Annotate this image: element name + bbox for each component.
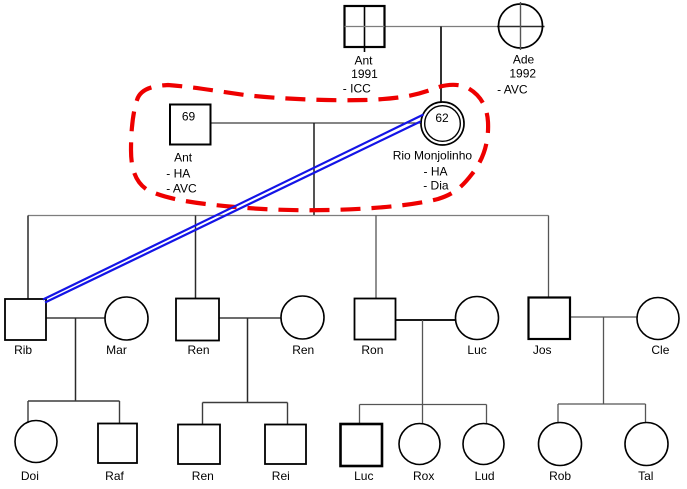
wire: marriage Ron-Luc bbox=[396, 319, 456, 321]
wire: descent Jos-Cle to children bbox=[603, 317, 605, 404]
person Mar (circle) bbox=[105, 297, 148, 340]
wire: sibship line Jos-Cle children bbox=[558, 403, 646, 405]
svg-text:Lud: Lud bbox=[475, 469, 495, 483]
annotation: blue double relationship line 62 to Rib bbox=[43, 115, 424, 303]
label Ade 1992 - AVC bbox=[497, 53, 536, 97]
svg-text:1991: 1991 bbox=[351, 67, 378, 81]
wire: drop to Ren son bbox=[202, 403, 204, 425]
svg-text:1992: 1992 bbox=[509, 67, 536, 81]
person Ant 69 (square) bbox=[170, 105, 211, 145]
wire: marriage Rib-Mar bbox=[46, 317, 105, 319]
label Ant - HA - AVC bbox=[166, 151, 197, 196]
wire: drop to Lud bbox=[486, 405, 488, 425]
wire: drop to Rob bbox=[557, 404, 559, 423]
person Doi (circle) bbox=[15, 421, 57, 463]
person Luc son (square, bold) bbox=[341, 424, 383, 466]
person Ron (square) bbox=[355, 299, 396, 340]
svg-text:62: 62 bbox=[435, 111, 449, 125]
svg-text:Rox: Rox bbox=[413, 469, 434, 483]
wire: drop to Ren bbox=[195, 216, 197, 299]
wire: descent from top couple to circle 62 bbox=[440, 27, 442, 104]
person Lud (circle) bbox=[463, 424, 504, 465]
wire: marriage Jos-Cle bbox=[570, 316, 637, 318]
wire: drop to Dei bbox=[27, 401, 29, 423]
person Jos (square) bbox=[529, 298, 571, 340]
svg-text:Cle: Cle bbox=[651, 343, 669, 357]
person Ade 1992 (circle with cross, deceased) bbox=[499, 2, 543, 50]
person Rox (circle) bbox=[399, 424, 440, 465]
wire: marriage line 69-62 bbox=[211, 122, 422, 124]
person Ren mother (circle) bbox=[281, 296, 324, 339]
svg-text:Ren: Ren bbox=[187, 343, 209, 357]
wire: drop to Luc son bbox=[359, 405, 361, 425]
wire: sibship line Ren-Ren children bbox=[203, 402, 288, 404]
wire: drop to Rib bbox=[27, 216, 29, 300]
label Rio Monjolinho - HA - Dia bbox=[393, 149, 473, 193]
wire: drop to Jos bbox=[548, 216, 550, 298]
svg-text:Tal: Tal bbox=[638, 469, 653, 483]
svg-text:Luc: Luc bbox=[354, 469, 373, 483]
wire: drop to Rei bbox=[287, 403, 289, 425]
person Tal (circle) bbox=[625, 423, 668, 466]
svg-text:Ade: Ade bbox=[513, 53, 535, 67]
person Raf (square) bbox=[98, 424, 137, 464]
svg-text:- ICC: - ICC bbox=[343, 82, 371, 96]
person Rio Monjolinho 62 (double circle) bbox=[421, 102, 464, 145]
wire: drop to Tal bbox=[645, 404, 647, 423]
svg-text:Rei: Rei bbox=[272, 469, 290, 483]
svg-text:Luc: Luc bbox=[467, 343, 486, 357]
svg-text:- HA: - HA bbox=[424, 165, 448, 179]
svg-text:Ron: Ron bbox=[361, 343, 383, 357]
svg-text:Rob: Rob bbox=[549, 469, 571, 483]
wire: marriage line Ant1991-Ade1992 bbox=[384, 26, 497, 28]
wire: sibship line Ron-Luc children bbox=[360, 404, 487, 406]
person Ant 1991 (quartered square, deceased) bbox=[345, 6, 385, 52]
svg-text:Jos: Jos bbox=[533, 343, 552, 357]
svg-text:Ant: Ant bbox=[174, 151, 193, 165]
person Rob (circle) bbox=[539, 423, 582, 466]
svg-text:Ren: Ren bbox=[192, 469, 214, 483]
svg-text:Doi: Doi bbox=[21, 469, 39, 483]
svg-text:Ren: Ren bbox=[292, 343, 314, 357]
person Rei (square) bbox=[265, 425, 306, 465]
person Luc mother (circle) bbox=[456, 297, 499, 340]
svg-text:- HA: - HA bbox=[166, 167, 190, 181]
wire: sibship line Rib-Mar children bbox=[28, 400, 120, 402]
wire: marriage Ren-Ren bbox=[219, 317, 281, 319]
person Ren son (square) bbox=[178, 425, 220, 465]
wire: descent from 69-62 couple to sibship line bbox=[313, 123, 315, 216]
svg-text:69: 69 bbox=[182, 110, 196, 124]
wire: horizontal cross bar of Ade circle bbox=[497, 26, 545, 28]
svg-text:Ant: Ant bbox=[354, 54, 373, 68]
person Ren father (square) bbox=[176, 299, 219, 341]
svg-text:- AVC: - AVC bbox=[497, 83, 528, 97]
svg-text:Rib: Rib bbox=[14, 343, 32, 357]
svg-text:Raf: Raf bbox=[105, 469, 124, 483]
wire: sibship line generation 2 bbox=[28, 215, 549, 217]
wire: drop to Raf bbox=[119, 401, 121, 424]
wire: descent Ren-Ren to children bbox=[247, 318, 249, 403]
person Cle (circle) bbox=[637, 298, 679, 340]
annotation: red dashed ellipse around couple bbox=[131, 85, 488, 210]
svg-text:Mar: Mar bbox=[106, 343, 127, 357]
wire: descent Rib-Mar to children bbox=[75, 318, 77, 401]
svg-text:- AVC: - AVC bbox=[166, 182, 197, 196]
svg-text:Rio Monjolinho: Rio Monjolinho bbox=[393, 149, 473, 163]
wire: descent Ron-Luc to children (continues to Rox) bbox=[422, 320, 424, 424]
label Ant 1991 - ICC bbox=[343, 54, 378, 96]
person Rib (square) bbox=[5, 299, 46, 340]
svg-text:- Dia: - Dia bbox=[423, 179, 449, 193]
wire: drop to Ron bbox=[375, 216, 377, 299]
